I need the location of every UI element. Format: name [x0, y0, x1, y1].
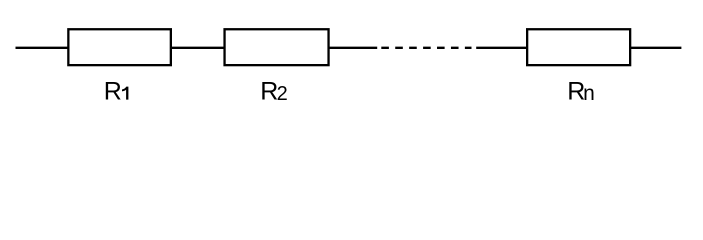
- resistor R1: [68, 29, 171, 65]
- svg-text:R2: R2: [260, 78, 287, 106]
- svg-text:Rn: Rn: [567, 78, 595, 106]
- svg-text:R: R: [104, 78, 122, 106]
- wire R2 to dashed section: [329, 47, 378, 49]
- resistor Rn: [527, 29, 630, 65]
- resistor R2: [225, 29, 329, 65]
- wire left lead: [16, 47, 69, 49]
- wire right lead: [630, 47, 681, 49]
- wire dashed continuation (ellipsis): [381, 47, 471, 49]
- wire dashed section to Rn: [476, 47, 528, 49]
- wire R1 to R2: [171, 47, 225, 49]
